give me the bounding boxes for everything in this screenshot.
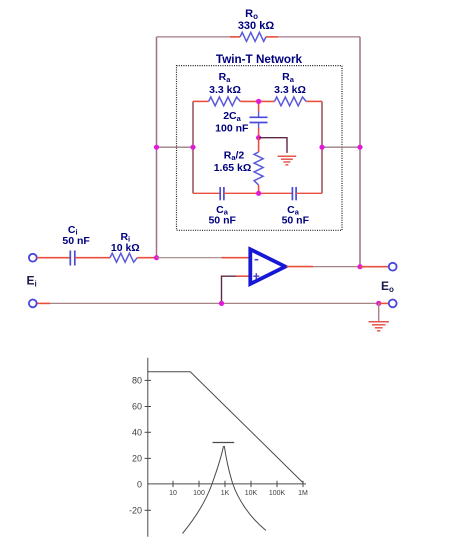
svg-text:60: 60 <box>132 402 142 412</box>
label Ri <box>120 231 130 244</box>
label Ra left <box>219 71 232 84</box>
wire Ra/2 bottom lead <box>258 185 260 193</box>
svg-text:20: 20 <box>132 454 142 464</box>
node twin-T right <box>319 145 324 150</box>
node center junction <box>256 135 261 140</box>
wire center vertical lower lead <box>258 123 260 138</box>
label Ci <box>68 224 78 237</box>
node output junction <box>357 264 362 269</box>
label Ra left value 3.3 kOhm <box>209 84 241 96</box>
wire twin-T loop left edge <box>192 101 194 193</box>
node right rail tap <box>357 145 362 150</box>
node bottom rail ground junction <box>376 301 381 306</box>
svg-text:100K: 100K <box>269 490 286 497</box>
label Ro value 330 kOhm <box>238 20 275 32</box>
svg-text:50 nF: 50 nF <box>62 235 90 247</box>
svg-text:50 nF: 50 nF <box>208 215 236 227</box>
svg-text:Ei: Ei <box>27 274 37 289</box>
svg-text:10: 10 <box>169 490 177 497</box>
wire twin-T bottom edge middle <box>224 192 293 194</box>
node twin-T left <box>190 145 195 150</box>
svg-text:-20: -20 <box>129 506 142 516</box>
wire twin-T top edge right lead <box>306 100 322 102</box>
wire input lead <box>37 257 70 259</box>
svg-text:330 kΩ: 330 kΩ <box>238 20 275 32</box>
graph notch peak cap <box>213 442 235 444</box>
graph notch curve left branch <box>183 446 224 534</box>
svg-text:80: 80 <box>132 376 142 386</box>
label Ca right <box>287 204 300 217</box>
label Twin-T Network title <box>216 53 303 66</box>
graph x-axis labels <box>169 490 308 497</box>
svg-text:0: 0 <box>137 479 142 489</box>
wire op-amp plus stub <box>222 276 250 303</box>
graph y-axis <box>147 358 149 537</box>
svg-text:10 kΩ: 10 kΩ <box>111 242 140 254</box>
svg-text:Eo: Eo <box>381 279 394 294</box>
capacitor Ca left <box>220 187 224 200</box>
resistor Ra right <box>275 97 307 106</box>
svg-text:2Ca: 2Ca <box>223 110 241 123</box>
svg-text:3.3 kΩ: 3.3 kΩ <box>209 84 241 96</box>
svg-text:1.65 kΩ: 1.65 kΩ <box>214 162 252 174</box>
label Ca left <box>216 204 229 217</box>
wire twin-T top edge middle <box>240 100 274 102</box>
label Ri value 10 kOhm <box>111 242 140 254</box>
label Ro <box>245 8 258 21</box>
svg-text:100 nF: 100 nF <box>215 123 249 135</box>
svg-text:100: 100 <box>193 490 205 497</box>
label Ra/2 value 1.65 kOhm <box>214 162 252 174</box>
wire twin-T bottom edge left lead <box>193 192 220 194</box>
svg-text:Ro: Ro <box>245 8 258 21</box>
graph notch curve right branch <box>224 446 266 531</box>
terminal Ei upper <box>29 254 37 262</box>
wire node to op-amp minus <box>157 257 250 259</box>
label Ci value 50 nF <box>62 235 90 247</box>
op-amp U1 <box>250 249 285 284</box>
wire ground stub right <box>378 303 380 321</box>
wire op-amp output <box>287 266 361 268</box>
wire twin-T bottom edge right lead <box>296 192 322 194</box>
node bottom rail plus junction <box>219 301 224 306</box>
label Ra/2 <box>224 149 245 162</box>
label Ca right value 50 nF <box>282 215 310 227</box>
node left rail tap <box>154 145 159 150</box>
capacitor 2Ca <box>250 117 268 122</box>
graph x-axis <box>148 483 306 485</box>
wire right rail <box>359 37 361 267</box>
label Ca left value 50 nF <box>208 215 236 227</box>
terminal Ei lower <box>29 300 37 308</box>
graph y-axis labels <box>129 376 142 516</box>
node input junction <box>154 255 159 260</box>
wire left rail <box>156 37 158 258</box>
capacitor Ci <box>70 251 75 266</box>
wire right tap <box>322 146 360 148</box>
wire center vertical upper lead <box>258 101 260 117</box>
label Ra right value 3.3 kOhm <box>274 84 306 96</box>
resistor Ra/2 <box>254 152 263 185</box>
svg-text:1M: 1M <box>298 490 308 497</box>
resistor Ra left <box>209 97 241 106</box>
svg-text:10K: 10K <box>245 490 258 497</box>
svg-text:Ra: Ra <box>219 71 232 84</box>
label 2Ca <box>223 110 241 123</box>
wire feedback top-left segment <box>157 36 241 38</box>
wire twin-T top edge left lead <box>193 100 209 102</box>
node twin-T bottom center <box>256 191 261 196</box>
wire Ri to node <box>137 257 156 259</box>
wire output to terminal <box>360 266 389 268</box>
capacitor Ca right <box>292 187 296 200</box>
wire feedback top-right segment <box>266 36 360 38</box>
resistor Ri <box>110 253 137 262</box>
svg-text:3.3 kΩ: 3.3 kΩ <box>274 84 306 96</box>
graph y-axis ticks <box>145 380 151 510</box>
Twin-T Network dashed box <box>177 66 343 231</box>
svg-text:1K: 1K <box>221 490 230 497</box>
wire bottom rail <box>50 302 379 304</box>
resistor Ro <box>240 32 266 41</box>
graph gain response line <box>148 372 303 483</box>
wire to Ra/2 <box>258 138 260 152</box>
label Eo <box>381 279 394 294</box>
svg-text:Twin-T Network: Twin-T Network <box>216 53 303 66</box>
svg-text:Ra: Ra <box>282 71 295 84</box>
terminal Eo upper <box>389 263 397 271</box>
label Ra right <box>282 71 295 84</box>
graph x-axis ticks <box>173 481 303 487</box>
svg-text:Ra/2: Ra/2 <box>224 149 245 162</box>
wire left tap <box>157 146 194 148</box>
label 2Ca value 100 nF <box>215 123 249 135</box>
ground output <box>369 322 389 331</box>
wire bottom rail to terminal <box>379 302 389 304</box>
wire ground stub twin-T <box>259 138 287 153</box>
wire twin-T loop right edge <box>321 101 323 193</box>
terminal Eo lower <box>389 300 397 308</box>
ground twin-T <box>278 156 297 165</box>
label Ei <box>27 274 37 289</box>
svg-text:40: 40 <box>132 428 142 438</box>
wire Ci to Ri <box>75 257 110 259</box>
svg-text:50 nF: 50 nF <box>282 215 310 227</box>
wire bottom rail lead left <box>37 302 50 304</box>
node twin-T top center <box>256 99 261 104</box>
